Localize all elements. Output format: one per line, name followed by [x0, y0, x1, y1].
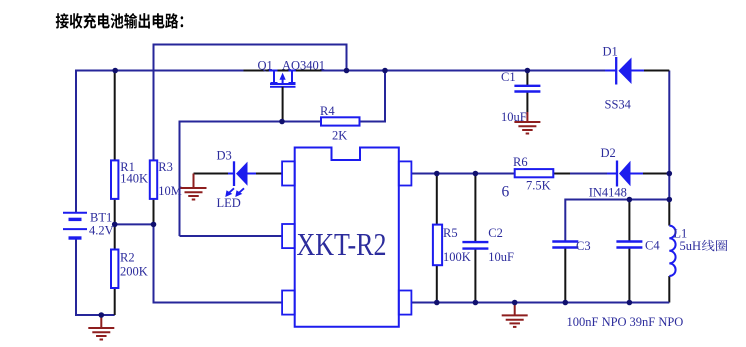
svg-text:IN4148: IN4148: [589, 186, 627, 200]
svg-text:7.5K: 7.5K: [526, 179, 551, 193]
svg-text:R2: R2: [120, 251, 135, 265]
svg-text:4.2V: 4.2V: [89, 223, 114, 237]
svg-text:C1: C1: [501, 70, 516, 84]
svg-text:C4: C4: [645, 238, 660, 252]
svg-text:D3: D3: [217, 149, 232, 163]
svg-text:C3: C3: [576, 239, 591, 253]
svg-text:39nF NPO: 39nF NPO: [630, 315, 684, 329]
svg-text:D1: D1: [603, 45, 618, 59]
svg-text:LED: LED: [217, 196, 241, 210]
svg-text:R5: R5: [443, 226, 458, 240]
svg-text:5uH: 5uH: [680, 239, 702, 253]
svg-text:SS34: SS34: [605, 98, 632, 112]
svg-text:R3: R3: [158, 160, 173, 174]
svg-text:10uF: 10uF: [488, 250, 514, 264]
svg-text:D2: D2: [601, 146, 616, 160]
svg-text:100nF NPO: 100nF NPO: [567, 315, 627, 329]
svg-text:100K: 100K: [443, 250, 471, 264]
svg-text:C2: C2: [488, 226, 503, 240]
svg-text:140K: 140K: [120, 171, 148, 185]
svg-text:10M: 10M: [158, 184, 182, 198]
svg-text:2K: 2K: [332, 129, 347, 143]
svg-text:AO3401: AO3401: [282, 58, 325, 72]
svg-text:R6: R6: [513, 155, 528, 169]
svg-text:Q1: Q1: [258, 58, 273, 72]
svg-text:10uF: 10uF: [501, 110, 527, 124]
svg-text:XKT-R2: XKT-R2: [297, 227, 387, 262]
svg-text:6: 6: [502, 183, 510, 200]
svg-text:BT1: BT1: [90, 210, 112, 224]
svg-text:200K: 200K: [120, 265, 148, 279]
svg-text:R4: R4: [320, 104, 335, 118]
